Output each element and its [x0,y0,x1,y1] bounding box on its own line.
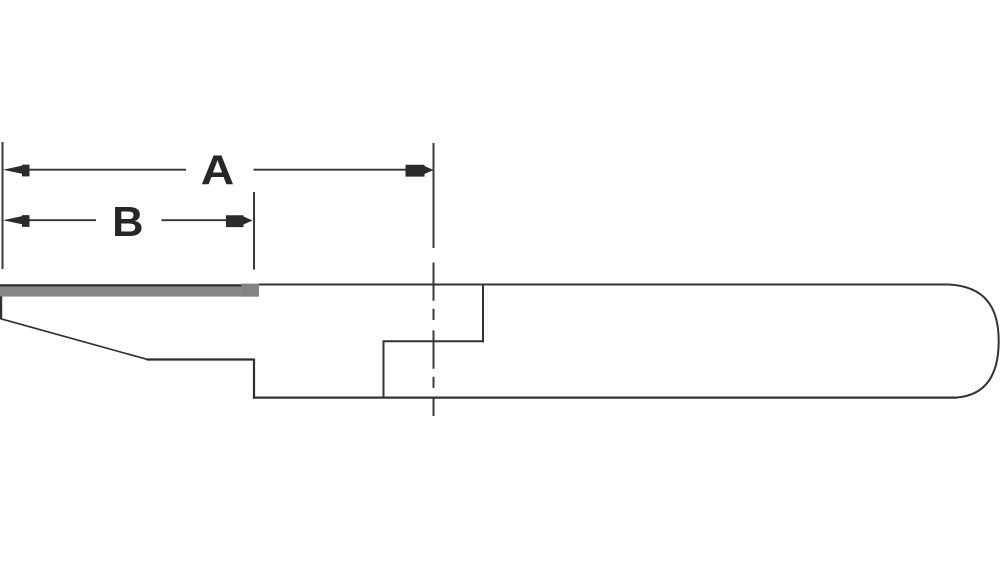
centerline (dash-dot chain line through step) [433,263,435,417]
blade heel vertical [253,359,255,399]
blade left edge vertical [0,296,2,319]
blade top edge right segment [259,284,949,286]
step notch horizontal [384,340,485,342]
blade bottom edge [253,397,956,399]
blade rounded end cap [949,285,999,398]
blade top edge left segment [0,284,242,286]
blade heel horizontal [147,358,255,360]
gray bar raised end block [242,284,260,297]
svg-text:B: B [112,198,143,245]
arrowhead B right [226,215,253,227]
gray cutting edge bar [0,286,259,296]
extension line A right (solid, above centerline) [433,143,435,248]
extension line left (at blade tip) [2,142,4,269]
arrowhead A right [406,165,434,177]
arrowhead A left [3,165,30,177]
blade bevel diagonal [1,319,148,360]
dimension line A left segment [27,169,186,171]
extension line B right [253,192,255,270]
step notch vertical left [383,340,385,397]
dimension line B left segment [27,219,96,221]
step notch vertical right [482,285,484,343]
arrowhead B left [3,215,30,227]
dimension line A right segment [254,169,408,171]
svg-text:A: A [201,147,235,194]
dimension line B right segment [162,219,229,221]
